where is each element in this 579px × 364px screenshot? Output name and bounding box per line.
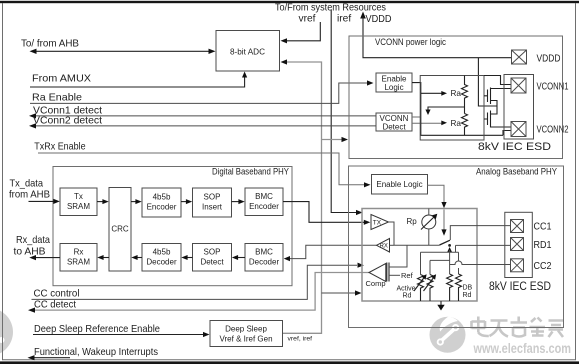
wire Functional Wakeup arrow [31, 357, 70, 359]
wire CC control to analog switch [32, 265, 358, 299]
ESD container box (VCONN pins) [504, 75, 534, 140]
Digital Baseband PHY box [53, 167, 292, 286]
svg-text:Ra Enable: Ra Enable [32, 92, 82, 104]
svg-text:TX: TX [373, 219, 382, 226]
switch blade and contact [440, 240, 451, 245]
wire Ref into comparator [389, 274, 400, 276]
wire Ra midpoint junction with down arrow [428, 101, 465, 114]
resistor Ra upper [462, 76, 468, 102]
analog inner circuit box [362, 209, 477, 302]
resistor DB Rd left [447, 274, 453, 301]
svg-text:Ra: Ra [451, 89, 462, 98]
svg-text:Logic: Logic [384, 83, 403, 92]
svg-text:Analog Baseband PHY: Analog Baseband PHY [476, 166, 557, 176]
svg-text:Enable Logic: Enable Logic [376, 180, 422, 189]
wire comp sense from CC line [389, 245, 407, 267]
ESD cell VCONN1 [511, 78, 526, 93]
wire RX out to BMC Decoder [289, 245, 377, 258]
wire SOP Detect to 4b5b Decoder [186, 257, 193, 259]
wire branch to upper Ra arrow [421, 92, 442, 94]
wire CC common line [394, 244, 440, 246]
svg-text:Comp: Comp [366, 279, 386, 288]
wire CRC to 4b5b Encoder [131, 201, 137, 203]
resistor Active Rd right (variable) [427, 275, 433, 302]
svg-text:iref: iref [337, 14, 351, 25]
svg-text:4b5b: 4b5b [153, 193, 171, 202]
svg-text:www.elecfans.com: www.elecfans.com [473, 341, 571, 356]
ADC block [216, 31, 280, 72]
wire Ra top rail to VCONN1 [484, 76, 511, 85]
wire To/from AHB double arrow [34, 50, 211, 52]
svg-text:vref, iref: vref, iref [288, 336, 313, 343]
wire Rx SRAM out to AHB [33, 257, 60, 259]
svg-text:Rd: Rd [463, 292, 472, 299]
svg-text:SOP: SOP [204, 248, 221, 257]
svg-text:VCONN1: VCONN1 [537, 80, 569, 92]
Ra network box [420, 76, 484, 141]
BMC Encoder block [245, 188, 283, 216]
wire RD1 line [456, 245, 512, 252]
svg-text:BMC: BMC [255, 192, 273, 201]
svg-text:BMC: BMC [255, 248, 273, 257]
svg-text:VConn2 detect: VConn2 detect [33, 115, 102, 127]
wire bus branch into analog inner box [322, 292, 357, 294]
wire TX out to CC common [389, 222, 395, 245]
wire DB right resistor drop [458, 268, 460, 274]
svg-text:Functional, Wakeup Interrupts: Functional, Wakeup Interrupts [34, 346, 158, 358]
wire Tx SRAM to CRC [97, 201, 104, 203]
svg-text:Tx_data: Tx_data [10, 177, 44, 189]
svg-text:8kV IEC ESD: 8kV IEC ESD [478, 141, 551, 153]
svg-text:from AHB: from AHB [9, 189, 50, 201]
BMC Decoder block [245, 244, 283, 272]
wire vref down-left into ADC [286, 22, 320, 41]
ground symbol [440, 301, 442, 306]
buffer RX [377, 239, 390, 253]
svg-text:Decoder: Decoder [146, 258, 177, 267]
svg-text:4b5b: 4b5b [153, 248, 171, 257]
svg-text:CRC: CRC [111, 225, 129, 234]
VCONN power logic box [349, 36, 563, 159]
svg-text:CC detect: CC detect [34, 299, 76, 311]
4b5b Decoder block [142, 244, 181, 272]
buffer TX [371, 215, 389, 230]
resistor DB Rd right [456, 274, 462, 301]
svg-text:SOP: SOP [204, 193, 221, 202]
wire 4b5b Decoder to CRC [136, 257, 143, 259]
svg-text:Encoder: Encoder [147, 203, 177, 212]
resistor Rp variable [422, 215, 436, 229]
Deep Sleep Vref and Iref Gen block [210, 321, 283, 347]
wire VConn2 detect [33, 125, 376, 127]
Tx SRAM block [60, 188, 97, 216]
wire VConn1 detect [33, 115, 376, 117]
svg-text:SRAM: SRAM [67, 202, 90, 211]
svg-text:Rx_data: Rx_data [16, 234, 50, 246]
svg-text:Deep Sleep Reference Enable: Deep Sleep Reference Enable [34, 323, 160, 335]
svg-text:DB: DB [463, 285, 473, 292]
wire Ra Enable to VCONN enable logic [30, 83, 368, 103]
wire Enable Logic out to inner box top [428, 185, 445, 203]
svg-text:Digital Baseband PHY: Digital Baseband PHY [212, 166, 289, 176]
svg-text:Deep Sleep: Deep Sleep [225, 325, 267, 334]
wire Rp stubs [428, 209, 430, 246]
wire SOP Insert to BMC Encoder [232, 201, 241, 203]
svg-text:RD1: RD1 [534, 239, 552, 251]
wire Deep Sleep Reference Enable [33, 334, 204, 336]
wire switch to CC1 line [450, 226, 511, 240]
wire Ra bottom jog to VCONN2 [503, 131, 511, 136]
svg-text:Rp: Rp [407, 217, 418, 226]
svg-text:From AMUX: From AMUX [32, 73, 91, 85]
VCONN Detect block [376, 113, 412, 131]
svg-text:Detect: Detect [200, 258, 224, 267]
ESD cell RD1 [511, 238, 524, 251]
transistor Q1 (VCONN1 switch) [484, 88, 511, 107]
svg-text:Vref & Iref Gen: Vref & Iref Gen [219, 335, 272, 344]
svg-text:8-bit ADC: 8-bit ADC [230, 47, 265, 56]
wire vref-iref bus (gray) from Deep Sleep gen up to ADC [283, 62, 322, 333]
svg-text:Active: Active [397, 286, 416, 293]
svg-text:Ra: Ra [451, 119, 462, 128]
wire CC detect from comparator [33, 273, 369, 311]
wire Active Rd right top [430, 260, 450, 274]
wire enable continue inside to switch [443, 210, 445, 231]
Enable Logic block (analog) [372, 175, 428, 195]
svg-text:8kV IEC ESD: 8kV IEC ESD [489, 281, 551, 293]
wire BMC Decoder to SOP Detect [236, 257, 245, 259]
svg-text:to AHB: to AHB [14, 245, 46, 257]
wire Enable Logic out down to Ra network [412, 83, 503, 136]
svg-text:SRAM: SRAM [67, 258, 90, 267]
svg-text:VCONN power logic: VCONN power logic [375, 37, 446, 47]
watermark partial logo circle at left edge [0, 308, 13, 356]
wire bus branch into VCONN power logic [322, 139, 343, 141]
svg-text:Detect: Detect [382, 123, 406, 132]
ESD cell VDDD [512, 50, 527, 64]
watermark CJK text (stroke approximation) [472, 317, 564, 338]
Analog Baseband PHY box [349, 166, 564, 328]
wire RX input stub [390, 244, 395, 246]
wire CC2 line with hop [450, 261, 511, 264]
SOP Insert block [193, 188, 232, 217]
svg-text:TxRx Enable: TxRx Enable [34, 140, 85, 152]
svg-text:To/From system Resources: To/From system Resources [275, 3, 386, 14]
svg-text:Decoder: Decoder [249, 258, 280, 267]
resistor Active Rd left (variable) [418, 275, 424, 302]
svg-text:Rx: Rx [74, 248, 84, 257]
ESD cell CC1 [511, 220, 524, 233]
wire Tx_data into Tx SRAM [29, 200, 55, 202]
svg-text:VCONN2: VCONN2 [537, 123, 569, 135]
transistor Q2 (VCONN2 switch) [484, 106, 511, 128]
wire VDDD vertical with up arrow [360, 12, 366, 19]
4b5b Encoder block [142, 188, 181, 217]
wire VCONN Detect to lower Ra arrow [412, 122, 444, 124]
CRC block [109, 188, 131, 272]
wire VCONN Detect stub 1 [412, 116, 421, 118]
SOP Detect block [193, 244, 232, 272]
ESD container box (CC pins) [505, 212, 533, 277]
wire From AMUX into ADC bottom [30, 76, 245, 87]
Rx SRAM block [60, 244, 97, 272]
wire 4b5b Encoder to SOP Insert [181, 201, 188, 203]
wire Active Rd top rail [421, 252, 459, 261]
watermark logo circle (elecfans) [430, 317, 466, 353]
Enable Logic block (VCONN) [376, 73, 412, 92]
wire iref vertical down to analog box [331, 10, 356, 213]
wire Active Rd left top [420, 252, 422, 274]
svg-text:To/ from AHB: To/ from AHB [21, 37, 79, 49]
arrows on Active Rd [414, 277, 425, 291]
ESD cell CC2 [511, 259, 524, 272]
resistor Ra lower [462, 114, 468, 136]
wire TxRx Enable to analog enable logic [38, 153, 365, 185]
wire BMC Encoder out to analog TX [283, 202, 365, 223]
svg-text:Ref: Ref [401, 271, 414, 280]
ESD cell VCONN2 [511, 122, 526, 137]
svg-text:RX: RX [380, 244, 388, 250]
svg-text:vref: vref [299, 14, 316, 25]
svg-text:VDDD: VDDD [366, 14, 392, 25]
svg-text:Rd: Rd [403, 293, 412, 300]
top black bar [0, 1, 579, 3]
wire CRC to Rx SRAM [102, 257, 110, 259]
svg-text:VDDD: VDDD [537, 52, 561, 64]
wire contact down to DB/CC2 node with up arrow [447, 247, 452, 253]
wire VDDD branch down to FET mid node [478, 58, 497, 106]
svg-text:CC1: CC1 [534, 220, 552, 232]
comparator Comp [369, 264, 386, 282]
svg-text:Insert: Insert [202, 203, 223, 212]
bottom black bar [0, 361, 579, 364]
svg-text:Encoder: Encoder [249, 202, 279, 211]
svg-text:CC2: CC2 [534, 260, 552, 272]
svg-text:Tx: Tx [74, 192, 83, 201]
